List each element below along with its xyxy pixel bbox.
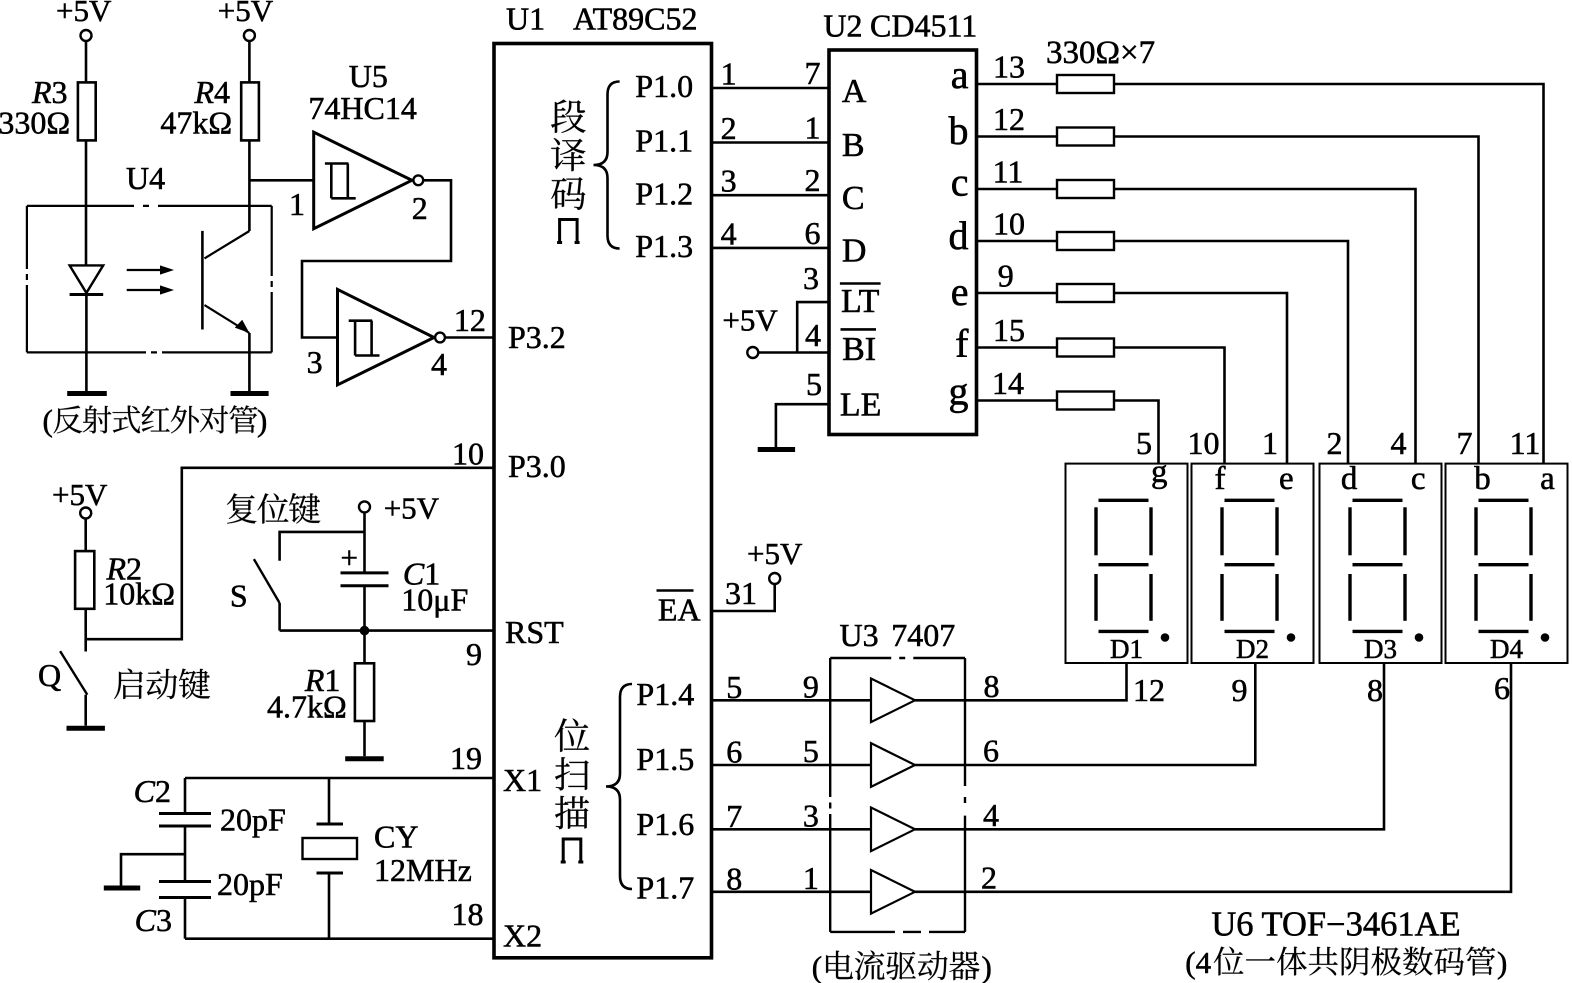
wire C1 to junction: [363, 586, 366, 631]
wire node to P3.0: [86, 468, 494, 639]
svg-text:13: 13: [993, 49, 1025, 85]
svg-text:9: 9: [998, 258, 1014, 294]
svg-text:b: b: [949, 108, 969, 153]
svg-text:C2: C2: [134, 773, 171, 809]
svg-text:P1.5: P1.5: [636, 741, 694, 777]
wire U3 output 3: [915, 828, 965, 831]
7-segment digit D4 cell: [1446, 464, 1568, 663]
wire X1 line: [185, 777, 494, 780]
svg-text:7407: 7407: [891, 617, 955, 653]
wire R3 to LED anode: [85, 140, 88, 265]
wire P1.1 U1 to U2: [712, 141, 830, 144]
svg-text:5: 5: [1136, 425, 1152, 461]
svg-text:7: 7: [805, 55, 821, 91]
svg-text:RST: RST: [505, 614, 564, 650]
svg-text:(: (: [812, 950, 822, 983]
wire +5V to R4: [248, 41, 251, 82]
svg-text:P1.0: P1.0: [635, 68, 693, 104]
svg-text:U6 TOF−3461AE: U6 TOF−3461AE: [1211, 906, 1460, 944]
buffer U3 channel 4: [871, 870, 915, 914]
wire P1.6 U1 to U3: [712, 828, 872, 831]
wire U2 pin c to resistor: [977, 188, 1058, 191]
buffer U3 channel 3: [871, 808, 915, 852]
wire BI pin4 from +5V: [758, 351, 829, 354]
switch S blade: [254, 559, 280, 603]
svg-text:1: 1: [289, 186, 305, 222]
capacitor C1 plates: [341, 573, 389, 586]
svg-text:9: 9: [466, 636, 482, 672]
digit D2 decimal point: [1287, 633, 1296, 642]
svg-text:D2: D2: [1236, 634, 1269, 664]
svg-text:g: g: [949, 369, 969, 414]
svg-text:1: 1: [721, 56, 737, 92]
svg-text:U4: U4: [126, 160, 165, 196]
svg-text:S: S: [230, 578, 248, 614]
svg-text:6: 6: [805, 215, 821, 251]
svg-text:4: 4: [805, 317, 821, 353]
U5A output bubble: [413, 175, 423, 185]
wire EA to +5V: [712, 584, 775, 611]
svg-text:P1.2: P1.2: [635, 176, 693, 212]
resistor R1 body: [355, 663, 374, 721]
svg-text:4.7kΩ: 4.7kΩ: [267, 689, 347, 725]
svg-text:12: 12: [993, 101, 1025, 137]
7-segment digit D3 cell: [1320, 464, 1442, 663]
svg-text:d: d: [1341, 461, 1358, 497]
svg-text:D1: D1: [1110, 634, 1143, 664]
svg-text:X2: X2: [503, 918, 542, 954]
+5V terminal R2: [80, 508, 91, 519]
svg-text:LE: LE: [840, 387, 882, 424]
wire U3 output 1: [915, 699, 965, 702]
wire X2 line: [185, 937, 494, 940]
svg-text:D3: D3: [1364, 634, 1397, 664]
wire P1.4 U1 to U3: [712, 699, 872, 702]
wire R1 to ground: [363, 721, 366, 756]
wire +5V to R3: [85, 41, 88, 82]
svg-text:D4: D4: [1490, 634, 1523, 664]
svg-text:31: 31: [725, 575, 757, 611]
svg-text:330Ω×7: 330Ω×7: [1046, 35, 1155, 71]
svg-text:8: 8: [1367, 672, 1383, 708]
svg-text:10μF: 10μF: [401, 582, 468, 618]
+5V terminal R4: [244, 30, 255, 41]
svg-text:e: e: [951, 269, 969, 314]
wire RST line: [280, 629, 494, 632]
svg-text:+5V: +5V: [747, 536, 803, 571]
buffer U3 channel 2: [871, 743, 915, 787]
svg-text:47kΩ: 47kΩ: [160, 105, 232, 141]
svg-text:b: b: [1474, 461, 1491, 497]
svg-text:9: 9: [803, 668, 819, 704]
svg-text:+5V: +5V: [218, 0, 274, 28]
wire U6 digit D4 cathode to U3: [965, 663, 1511, 892]
svg-text:): ): [1497, 945, 1507, 980]
wire junction to R1: [363, 631, 366, 664]
svg-text:BI: BI: [842, 331, 876, 368]
svg-text:): ): [982, 950, 992, 983]
wire R4 down to phototransistor collector: [248, 140, 251, 231]
wire P1.5 U1 to U3: [712, 764, 872, 767]
wire U2 pin f to resistor: [977, 346, 1058, 349]
svg-text:P1.3: P1.3: [635, 228, 693, 264]
svg-text:+5V: +5V: [52, 477, 108, 512]
wire resistor to display segment c: [1114, 189, 1416, 464]
svg-text:U1: U1: [506, 1, 545, 37]
wire P1.0 U1 to U2: [712, 87, 830, 90]
U5A hysteresis symbol: [325, 164, 356, 199]
svg-text:f: f: [955, 321, 969, 366]
svg-text:D: D: [842, 233, 867, 270]
capacitor C3 plates: [159, 882, 211, 898]
svg-text:P1.1: P1.1: [635, 123, 693, 159]
svg-text:15: 15: [993, 312, 1025, 348]
resistor 330 ohm for segment a: [1057, 75, 1114, 93]
svg-text:2: 2: [805, 162, 821, 198]
svg-text:LT: LT: [841, 283, 880, 320]
svg-text:AT89C52: AT89C52: [573, 1, 697, 37]
resistor R2 body: [75, 551, 94, 609]
switch Q blade: [60, 651, 87, 695]
svg-text:19: 19: [450, 740, 482, 776]
svg-text:c: c: [951, 160, 969, 205]
wire C2 to C3: [184, 826, 187, 882]
digit D2 segments: [1222, 500, 1277, 631]
U5B hysteresis symbol: [349, 321, 380, 356]
IC U2 CD4511 body: [829, 50, 977, 435]
LED in U4: [70, 265, 104, 293]
svg-text:20pF: 20pF: [220, 802, 286, 838]
wire U5B output to P3.2: [445, 336, 494, 339]
svg-text:8: 8: [984, 668, 1000, 704]
wire U2 pin a to resistor: [977, 83, 1058, 86]
svg-text:1: 1: [803, 860, 819, 896]
wire emitter to ground: [248, 333, 251, 391]
7-segment digit D2 cell: [1192, 464, 1314, 663]
svg-text:P3.0: P3.0: [508, 448, 566, 484]
svg-text:6: 6: [1494, 670, 1510, 706]
resistor 330 ohm for segment f: [1057, 339, 1114, 357]
svg-text:9: 9: [1232, 672, 1248, 708]
svg-text:1: 1: [805, 110, 821, 146]
svg-text:3: 3: [721, 163, 737, 199]
svg-text:U2: U2: [823, 8, 862, 44]
wire P1.2 U1 to U2: [712, 194, 830, 197]
resistor 330 ohm for segment d: [1057, 232, 1114, 250]
label reset key: [227, 493, 257, 523]
wire P1.7 U1 to U3: [712, 890, 872, 893]
svg-text:P1.6: P1.6: [636, 806, 694, 842]
crystal CY electrode bottom: [317, 872, 344, 875]
inverter U5B triangle: [338, 289, 435, 385]
wire U2 pin d to resistor: [977, 240, 1058, 243]
phototransistor emitter with arrow: [205, 305, 250, 333]
resistor R3 body: [78, 82, 96, 140]
buffer U3 channel 1: [871, 679, 915, 723]
wire U6 digit D3 cathode to U3: [965, 663, 1384, 829]
phototransistor base bar: [201, 231, 204, 330]
IC U1 AT89C52 body: [494, 44, 712, 958]
svg-text:5: 5: [806, 366, 822, 402]
svg-text:g: g: [1151, 454, 1168, 490]
wire LT pin3: [797, 302, 829, 352]
wire U2 pin b to resistor: [977, 135, 1058, 138]
svg-text:4: 4: [1391, 425, 1407, 461]
svg-text:2: 2: [412, 190, 428, 226]
svg-text:CY: CY: [374, 819, 418, 855]
svg-text:14: 14: [992, 365, 1024, 401]
wire U6 digit D2 cathode to U3: [965, 663, 1255, 765]
wire crystal branch top: [328, 778, 331, 823]
svg-text:12: 12: [1133, 672, 1165, 708]
wire resistor to display segment f: [1114, 348, 1225, 464]
digit D4 segments: [1476, 500, 1531, 631]
+5V terminal for LT/BI: [747, 347, 758, 358]
wire resistor to display segment b: [1114, 137, 1479, 464]
svg-text:(4: (4: [1185, 945, 1211, 980]
ground under switch Q: [67, 726, 105, 731]
svg-text:): ): [257, 403, 267, 438]
svg-text:2: 2: [981, 859, 997, 895]
wire C3 to X2 line: [184, 898, 187, 939]
wire ground branch: [121, 854, 185, 885]
wire P1.3 U1 to U2: [712, 247, 830, 250]
digit D3 decimal point: [1415, 633, 1424, 642]
svg-text:74HC14: 74HC14: [308, 90, 416, 126]
crystal CY electrode top: [317, 823, 344, 826]
svg-text:+5V: +5V: [56, 0, 112, 28]
svg-text:18: 18: [452, 896, 484, 932]
svg-text:10: 10: [993, 206, 1025, 242]
7-segment digit D1 cell: [1066, 464, 1188, 663]
+5V terminal reset: [359, 501, 370, 512]
U5B output bubble: [435, 333, 445, 343]
digit D4 decimal point: [1541, 633, 1550, 642]
IC U3 7407 body dash-dot: [830, 658, 965, 932]
wire R2 to switch Q node: [84, 609, 87, 652]
svg-text:4: 4: [983, 797, 999, 833]
svg-text:B: B: [842, 127, 865, 164]
label start key: [114, 669, 143, 699]
svg-text:a: a: [951, 52, 969, 97]
svg-text:U5: U5: [349, 58, 388, 94]
svg-text:10kΩ: 10kΩ: [103, 576, 175, 612]
svg-text:A: A: [842, 73, 867, 110]
svg-text:3: 3: [803, 797, 819, 833]
svg-text:3: 3: [803, 260, 819, 296]
ground under LED: [67, 391, 107, 396]
ground at LE: [758, 447, 795, 452]
ground under R1: [345, 756, 384, 761]
wire U6 digit D1 cathode to U3: [965, 663, 1127, 700]
wire crystal branch bottom: [328, 875, 331, 939]
svg-text:12MHz: 12MHz: [374, 852, 472, 888]
wire resistor to display segment e: [1114, 293, 1287, 464]
wire U5A output to U5B input: [302, 180, 451, 337]
svg-text:4: 4: [431, 346, 447, 382]
wire resistor to display segment a: [1114, 84, 1544, 464]
svg-text:12: 12: [454, 302, 486, 338]
svg-text:10: 10: [452, 436, 484, 472]
svg-text:(: (: [43, 403, 53, 438]
ground at crystal: [104, 886, 140, 891]
wire +5V to R2: [84, 519, 87, 552]
wire resistor to display segment d: [1114, 241, 1348, 464]
phototransistor collector: [205, 231, 250, 258]
crystal CY body: [303, 838, 358, 859]
wire branch to switch S: [280, 532, 365, 561]
svg-text:1: 1: [1262, 425, 1278, 461]
wire R4 node to inverter1 input: [249, 179, 313, 182]
digit D1 segments: [1096, 500, 1151, 631]
wire U3 output 2: [915, 764, 965, 767]
svg-text:330Ω: 330Ω: [0, 105, 70, 141]
resistor 330 ohm for segment c: [1057, 180, 1114, 198]
label duan-yi-ma-kou vertical: [551, 100, 586, 133]
svg-text:6: 6: [983, 733, 999, 769]
svg-text:CD4511: CD4511: [870, 8, 977, 44]
+5V terminal at EA: [769, 573, 780, 584]
svg-text:C: C: [842, 180, 865, 217]
svg-text:11: 11: [993, 154, 1024, 190]
resistor 330 ohm for segment b: [1057, 128, 1114, 146]
wire U2 pin g to resistor: [977, 399, 1058, 402]
svg-text:5: 5: [803, 733, 819, 769]
wire +5V down to C1: [363, 512, 366, 573]
digit D3 segments: [1350, 500, 1405, 631]
svg-text:3: 3: [307, 344, 323, 380]
optocoupler U4 outline dash-dot: [27, 206, 272, 353]
svg-text:7: 7: [1457, 425, 1473, 461]
svg-text:X1: X1: [503, 762, 542, 798]
ground under phototransistor: [231, 391, 269, 396]
brace bit-scan port: [606, 684, 632, 889]
svg-text:Q: Q: [38, 657, 61, 693]
svg-text:f: f: [1215, 461, 1226, 497]
wire U3 output 4: [915, 890, 965, 893]
wire resistor to display segment g: [1114, 401, 1159, 464]
svg-text:c: c: [1411, 461, 1426, 497]
svg-text:+5V: +5V: [384, 491, 440, 526]
svg-text:4: 4: [721, 215, 737, 251]
capacitor C2 plates: [159, 814, 211, 827]
svg-text:C3: C3: [135, 902, 172, 938]
junction node RST: [360, 626, 370, 636]
svg-text:EA: EA: [658, 592, 701, 628]
svg-text:2: 2: [721, 110, 737, 146]
label wei-sao-miao-kou vertical: [555, 718, 589, 751]
svg-text:P1.7: P1.7: [636, 870, 694, 906]
svg-text:P3.2: P3.2: [508, 319, 566, 355]
light arrows: [127, 265, 174, 294]
svg-text:P1.4: P1.4: [636, 676, 694, 712]
svg-text:d: d: [949, 213, 969, 258]
brace segment-decode port: [594, 82, 620, 249]
resistor R4 body: [241, 82, 259, 140]
wire left vertical to C2: [184, 778, 187, 814]
resistor 330 ohm for segment e: [1057, 284, 1114, 302]
+5V terminal R3: [81, 30, 92, 41]
svg-text:2: 2: [1327, 425, 1343, 461]
digit D1 decimal point: [1161, 633, 1170, 642]
wire LE pin5 to ground: [776, 404, 829, 447]
svg-text:11: 11: [1510, 425, 1541, 461]
svg-text:20pF: 20pF: [217, 866, 283, 902]
inverter U5A triangle: [314, 132, 412, 229]
wire S to RST line: [278, 603, 281, 631]
wire LED cathode to ground: [85, 295, 88, 392]
svg-text:+5V: +5V: [722, 303, 778, 338]
resistor 330 ohm for segment g: [1057, 392, 1114, 410]
svg-text:10: 10: [1188, 425, 1220, 461]
svg-text:e: e: [1279, 461, 1294, 497]
wire U2 pin e to resistor: [977, 292, 1058, 295]
wire switch Q to ground: [84, 695, 87, 726]
svg-text:U3: U3: [840, 617, 879, 653]
svg-text:+: +: [341, 540, 358, 575]
svg-text:a: a: [1540, 461, 1555, 497]
